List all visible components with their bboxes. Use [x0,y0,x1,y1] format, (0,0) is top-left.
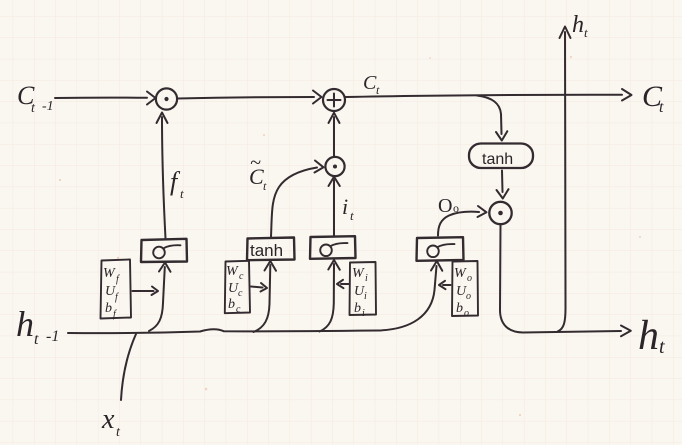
svg-text:t: t [584,25,588,40]
arrowhead into add node from below [329,113,340,123]
plus sign of add node [328,94,341,107]
svg-text:i: i [364,291,367,302]
arrowhead into add node [313,91,322,104]
svg-text:W: W [454,266,467,281]
block: sigma gate 3 box (output) [417,237,464,261]
svg-text:b: b [105,301,112,316]
svg-text:W: W [226,264,239,279]
glyph: sigma in gate 3 [427,246,439,258]
svg-text:tanh: tanh [482,151,513,168]
svg-text:o: o [464,308,469,319]
svg-text:W: W [103,266,116,281]
arrowhead o_t into multiply node 3 [478,206,487,217]
wire: i_t vertical from sigma gate 2 up to multiply node 2 [333,180,335,236]
svg-text:o: o [467,273,472,284]
wire: gate 4 input big elbow with arrowhead [378,266,437,331]
svg-text:b: b [456,301,463,316]
labels Wc Uc bc [226,264,244,315]
glyph: sigma in gate 1 [153,247,165,259]
wire: tanh oval down to multiply node 3 [501,171,504,193]
svg-text:x: x [101,404,115,435]
wire: candidate c-tilde curve from tanh gate to multiply node 2 [271,168,317,237]
wire: gate 3 input elbow with arrowhead [320,264,335,332]
wire: h_t output, multiply node 3 down then right [500,225,621,333]
svg-text:b: b [228,297,235,312]
wire: f_t vertical line from sigma gate 1 up to multiply node 1 [162,117,166,239]
node: elementwise-multiply circle 2 (input x candidate) [325,157,344,176]
svg-text:h: h [638,313,659,359]
block: tanh gate box [247,238,295,261]
arrowhead into multiply node 1 [147,92,156,105]
arrowhead Ct output right [622,89,632,101]
wire: cell-state line right segment to Ct arrow [346,95,623,97]
svg-text:tanh: tanh [250,241,283,260]
block: Wo Uo bo parameter box [452,261,478,316]
svg-text:-1: -1 [46,328,59,345]
block: Wf Uf bf parameter box [101,260,132,319]
svg-text:C: C [363,72,377,94]
block: sigma gate 2 box (input) [310,236,356,259]
svg-text:c: c [239,271,244,282]
svg-text:c: c [236,304,241,315]
block: sigma gate 1 box (forget) [141,239,187,262]
arrowhead into multiply node 3 from tanh [497,189,509,198]
node: elementwise-add circle [323,89,345,111]
svg-text:h: h [16,304,34,344]
wire: gate 2 (tanh) input elbow with arrowhead [254,265,271,332]
svg-text:i: i [342,194,348,219]
svg-text:t: t [180,186,184,201]
labels Wf Uf bf [103,266,120,320]
svg-text:o: o [453,201,459,215]
svg-text:b: b [354,301,361,316]
wire: branch from cell line down to tanh oval [477,96,502,135]
svg-text:~: ~ [250,152,261,174]
paper speckles [59,56,641,416]
arrowhead i_t into multiply node 2 [329,177,340,186]
wire: o_t from sigma gate 4 top curving right into multiply node 3 [438,212,479,236]
block: tanh activation oval [469,144,533,169]
wire: arrow from Wo box to o gate line (points left) [443,284,451,286]
wire: gate 1 input elbow from h line up to sigma gate 1 with arrowhead [149,267,165,331]
block: Wi Ui bi parameter box [350,262,377,315]
wire: x_t input line branching down from h line [121,334,136,400]
node: elementwise-multiply circle 3 (output) [489,202,511,224]
arrowhead f_t into multiply node 1 [157,113,168,124]
svg-text:t: t [659,336,665,358]
svg-text:W: W [352,266,365,281]
wire: h_t-1 horizontal line [68,329,378,333]
svg-text:t: t [34,331,39,348]
svg-text:c: c [238,288,243,299]
svg-text:i: i [365,273,368,284]
glyph: sigma in gate 2 [320,245,332,257]
svg-text:o: o [466,291,471,302]
labels Wo Uo bo [454,266,472,319]
labels Wi Ui bi [352,266,368,319]
wire: arrow from Wi box to i gate line (points left) [341,283,349,285]
svg-text:h: h [572,12,584,38]
svg-text:O: O [438,195,452,217]
svg-text:i: i [362,308,365,319]
wire: cell-state line middle segment [178,97,315,99]
arrowhead c-tilde into multiply node 2 [315,161,324,173]
wire: arrow from Wf box to f gate line [133,290,154,292]
arrowhead into tanh oval [496,131,507,140]
svg-text:t: t [350,208,354,223]
wire: h_t branch vertical going up to top arrow (crosses cell line) [558,32,566,332]
wire: arrow from Wc box to tanh gate line [251,287,263,288]
wire: cell-state line left segment (Ct-1 to mul node) [55,97,147,99]
svg-text:-1: -1 [42,99,54,114]
block: Wc Uc bc parameter box [225,261,250,313]
arrowhead h_t top [560,27,571,39]
wire: from add node down to multiply node 2 [333,117,335,156]
svg-text:t: t [659,99,664,116]
arrowhead h_t output right [621,326,631,337]
node: elementwise-multiply circle (forget) [156,88,177,109]
